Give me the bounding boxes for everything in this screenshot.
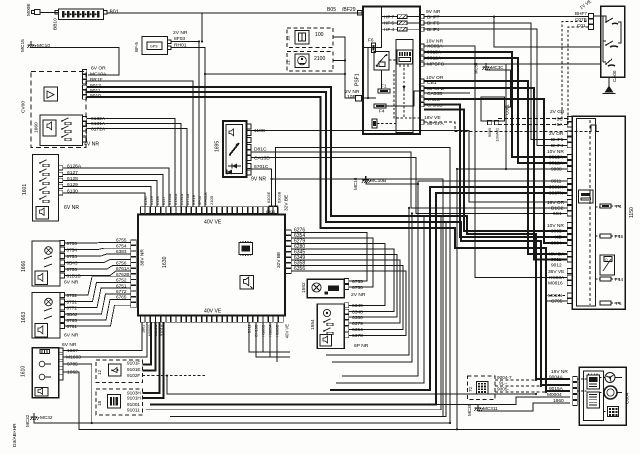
- svg-text:6754: 6754: [116, 243, 127, 248]
- svg-text:BR1E: BR1E: [90, 77, 104, 83]
- door speaker unit 1666: [21, 241, 60, 286]
- wire H16BB stub: [262, 322, 264, 352]
- wire 6772: [64, 288, 130, 307]
- svg-text:9004: 9004: [551, 241, 562, 247]
- svg-text:10V NR: 10V NR: [547, 223, 564, 229]
- wire 6B43: [64, 260, 130, 263]
- svg-text:MC30: MC30: [474, 62, 479, 74]
- svg-text:6761A: 6761A: [116, 266, 130, 271]
- fuse HF4: [382, 27, 421, 32]
- svg-text:40V VE: 40V VE: [285, 324, 290, 338]
- display icon in 1150: [579, 190, 594, 203]
- 1150 pin column: [567, 117, 572, 122]
- svg-text:2V NR: 2V NR: [173, 30, 188, 36]
- frame wire inner d: [336, 216, 424, 383]
- svg-text:6129: 6129: [149, 196, 154, 205]
- wire B011 stub: [249, 322, 290, 352]
- wire branch to C400 upper: [494, 17, 601, 47]
- wire 6753: [64, 254, 130, 256]
- svg-text:6131A: 6131A: [91, 121, 106, 127]
- bold wire 9012A: [424, 58, 567, 163]
- wire +5A: [498, 124, 567, 126]
- 1663 pins: [60, 293, 65, 298]
- svg-text:9005-: 9005-: [497, 387, 509, 392]
- svg-text:1552: 1552: [301, 282, 307, 293]
- wire BHF4 to 1150: [424, 29, 567, 145]
- bold wire 9013: [87, 87, 570, 379]
- dashed box 100: [286, 28, 334, 48]
- svg-text:M00E: M00E: [26, 3, 32, 16]
- C004 pins: [573, 377, 578, 382]
- wire ECU right pin 4: [292, 249, 395, 312]
- C004 chip text block: [587, 392, 600, 408]
- svg-text:+5C: +5C: [554, 117, 563, 123]
- wire MC32 long: [34, 417, 450, 423]
- svg-text:2100: 2100: [314, 56, 325, 62]
- svg-text:18: 18: [97, 400, 102, 406]
- wire RH01: [171, 48, 205, 208]
- terminal M00E: [26, 3, 40, 16]
- wire 8611 with frame vertical: [342, 181, 567, 376]
- PSF1 left pin B05: [358, 11, 363, 16]
- resistor in PSF1 bottom: [372, 119, 396, 128]
- svg-text:8F03: 8F03: [197, 196, 202, 205]
- 1630 left pin column: [131, 240, 136, 245]
- svg-text:10: 10: [286, 35, 291, 41]
- svg-text:9101H: 9101H: [127, 396, 141, 401]
- C400 switch 3: [605, 59, 615, 66]
- svg-text:10B: 10B: [347, 94, 356, 100]
- relay box 1695: [215, 121, 247, 177]
- svg-text:D3/AB×HR: D3/AB×HR: [12, 423, 18, 447]
- svg-text:MC10: MC10: [37, 43, 50, 49]
- svg-text:1695: 1695: [215, 141, 221, 152]
- bold wire 9011: [87, 92, 570, 385]
- svg-text:6765: 6765: [116, 295, 127, 300]
- svg-text:6C1: 6C1: [553, 211, 562, 217]
- svg-text:32V BE: 32V BE: [284, 195, 290, 211]
- svg-text:91011: 91011: [127, 407, 140, 412]
- svg-text:16V OR: 16V OR: [547, 200, 565, 206]
- wire C795 stub: [545, 300, 567, 302]
- svg-text:9101F: 9101F: [127, 361, 140, 366]
- wire 1667: [63, 322, 142, 350]
- wire 6751: [64, 282, 130, 301]
- frame wire inner e: [326, 208, 409, 355]
- component BF-5: [134, 37, 171, 55]
- svg-text:9012A: 9012A: [549, 161, 564, 167]
- svg-text:38V NR: 38V NR: [140, 249, 146, 266]
- svg-text:6772: 6772: [116, 289, 127, 294]
- display unit 1150: [572, 116, 635, 309]
- wire MPSFA dashed: [424, 122, 589, 132]
- svg-text:6750: 6750: [352, 285, 363, 291]
- fuse HF7: [382, 14, 421, 19]
- svg-text:MC15: MC15: [20, 39, 26, 52]
- wire B01 junction drop: [201, 13, 203, 42]
- svg-text:18V NR: 18V NR: [551, 369, 568, 375]
- svg-text:9004A: 9004A: [549, 374, 564, 380]
- bold wire CA93B to XE: [424, 105, 567, 238]
- wire MPSFC to 9008: [424, 64, 567, 169]
- svg-text:9004-7: 9004-7: [497, 375, 512, 380]
- svg-text:BHF4: BHF4: [427, 27, 440, 33]
- dashed wire C07B: [562, 22, 589, 120]
- frame wire inner f: [332, 214, 412, 363]
- svg-text:40V VE: 40V VE: [204, 309, 222, 315]
- wire M06IN stub: [545, 295, 567, 297]
- svg-text:1660: 1660: [553, 398, 564, 404]
- svg-text:6130: 6130: [143, 196, 148, 205]
- svg-text:6V NR: 6V NR: [64, 280, 79, 286]
- svg-text:MPSFC: MPSFC: [427, 62, 445, 68]
- wire BHF7 to C400: [424, 16, 589, 18]
- wire 6127: [63, 175, 163, 208]
- wire 6303 feed b: [170, 179, 443, 417]
- svg-text:9008: 9008: [551, 167, 562, 173]
- svg-text:6127: 6127: [67, 170, 78, 176]
- svg-text:XE: XE: [555, 235, 561, 241]
- svg-text:BB10: BB10: [53, 18, 59, 30]
- svg-text:M1663: M1663: [66, 355, 81, 361]
- wire 6131A: [87, 124, 181, 208]
- 1552 pins: [344, 279, 349, 284]
- svg-text:6756: 6756: [116, 261, 127, 266]
- svg-text:1601: 1601: [22, 184, 28, 195]
- handset unit 1610: [21, 348, 59, 398]
- grid icon in C004: [608, 407, 619, 417]
- 1630 right pin column: [286, 230, 291, 235]
- svg-text:10V NR: 10V NR: [426, 39, 444, 45]
- svg-text:100: 100: [315, 32, 324, 38]
- fuse F1: [378, 84, 390, 94]
- wire ECU right pin 3: [292, 244, 386, 306]
- svg-text:6130: 6130: [67, 189, 78, 195]
- svg-text:XC03A: XC03A: [427, 44, 443, 50]
- svg-text:6378: 6378: [352, 333, 363, 339]
- svg-text:C001: C001: [505, 104, 510, 115]
- antenna CA00: [603, 70, 618, 93]
- wire V0 outer frame: [456, 169, 458, 429]
- bold wire 9103H: [143, 322, 160, 393]
- wire 1662 bottom bus: [63, 372, 560, 429]
- wire ECU right pin 8: [292, 271, 407, 335]
- wire M1663: [63, 322, 147, 357]
- svg-text:6V NR: 6V NR: [64, 333, 79, 339]
- 1554 pins: [344, 303, 349, 308]
- svg-text:D1C2: D1C2: [551, 206, 564, 212]
- PSF1 inner module: [396, 40, 413, 133]
- wire 118C: [251, 131, 567, 203]
- svg-text:MC32: MC32: [25, 414, 30, 427]
- svg-text:36V VE: 36V VE: [548, 269, 564, 275]
- socket 1554: [310, 304, 344, 349]
- wire MC311: [478, 403, 570, 411]
- svg-text:Q: Q: [605, 258, 608, 262]
- svg-text:XC03A: XC03A: [549, 275, 565, 281]
- bold wire 9010: [87, 97, 570, 391]
- svg-text:6755: 6755: [116, 238, 127, 243]
- svg-text:MC35: MC35: [467, 403, 472, 416]
- bold wire 9006X frame: [330, 187, 567, 390]
- wire 6755: [64, 242, 130, 245]
- svg-text:1667: 1667: [67, 348, 78, 354]
- fuse F6 in 1150: [600, 301, 622, 306]
- svg-text:10V NR: 10V NR: [547, 149, 564, 155]
- fuse F6: [368, 38, 376, 53]
- connector 1660: [34, 115, 83, 146]
- svg-text:1663: 1663: [21, 312, 27, 323]
- svg-text:72: 72: [468, 386, 473, 392]
- svg-text:F4: F4: [616, 204, 622, 209]
- wire ECU right pin 6: [292, 260, 401, 323]
- IC chip icon in 1630: [239, 241, 253, 256]
- svg-text:91001: 91001: [127, 402, 140, 407]
- svg-text:BHF4: BHF4: [551, 143, 564, 149]
- svg-text:1660: 1660: [34, 122, 40, 133]
- connector block in PSF1: [397, 50, 413, 67]
- wire 6132A: [87, 119, 175, 208]
- wire 6303 feed a: [276, 148, 451, 424]
- speaker icon CV00: [44, 87, 58, 101]
- 1666 pins: [60, 241, 65, 246]
- svg-text:F15: F15: [615, 234, 623, 239]
- ground MC30: [474, 62, 504, 74]
- svg-text:6128: 6128: [155, 196, 160, 205]
- svg-text:6349: 6349: [352, 303, 363, 309]
- frame wire inner a: [146, 216, 441, 410]
- svg-text:9V NR: 9V NR: [251, 177, 266, 183]
- wire MC10 to CV00 pin: [31, 48, 119, 76]
- svg-text:1610: 1610: [21, 366, 27, 377]
- dashed wire 9L: [495, 385, 541, 387]
- wire corner to C004 region: [167, 376, 536, 394]
- clock icon in C004: [604, 386, 617, 399]
- dashed wire 9004: [495, 379, 536, 381]
- svg-text:MC32: MC32: [40, 415, 53, 420]
- 1630 top right pin 6303: [269, 206, 278, 214]
- 1150 internal dashed: [596, 206, 623, 303]
- wire 2100 join: [333, 60, 345, 62]
- svg-text:GPS: GPS: [150, 45, 158, 49]
- wire +5C: [498, 118, 567, 120]
- svg-text:6752: 6752: [116, 278, 127, 283]
- C400 switch 2: [605, 41, 618, 47]
- C400 internal wires: [594, 16, 622, 62]
- svg-text:9012: 9012: [551, 263, 562, 269]
- bold wire TACC: [424, 99, 567, 243]
- connector BB10 / B01 filter: [53, 9, 119, 30]
- svg-text:6705: 6705: [67, 362, 78, 368]
- svg-text:6303E: 6303E: [266, 191, 271, 203]
- wire RH01 branch to 10B: [205, 73, 345, 75]
- svg-text:9103H: 9103H: [127, 390, 141, 395]
- 1630 bottom pin strip: [141, 316, 145, 322]
- wire V0 top: [457, 168, 506, 170]
- svg-text:MC3C: MC3C: [491, 65, 503, 70]
- bold wire CB1: [424, 81, 567, 254]
- radio unit 1630: [138, 215, 285, 316]
- svg-text:BHF7: BHF7: [427, 14, 440, 20]
- wire CA53B stub: [424, 92, 470, 94]
- svg-text:12: 12: [97, 369, 102, 375]
- dashed box 2100: [286, 52, 334, 72]
- wire 61B1B: [64, 271, 130, 276]
- bold wire 9101H: [143, 322, 164, 398]
- wire branch to C400 lower: [475, 63, 601, 65]
- svg-text:1150: 1150: [629, 207, 635, 218]
- ground wire MC10B horizontal: [366, 176, 418, 184]
- wire BHF5 to 1150: [424, 23, 567, 140]
- 1630 top pin strip: [141, 207, 145, 214]
- IC icon in C004: [587, 373, 600, 389]
- wire 6130: [63, 193, 145, 207]
- wire 9005 bold: [424, 110, 567, 232]
- svg-text:6348: 6348: [352, 309, 363, 315]
- svg-text:6V NR: 6V NR: [64, 205, 79, 211]
- svg-text:/BF29: /BF29: [342, 7, 356, 13]
- dashed wire 9102F: [143, 375, 206, 377]
- svg-text:PSF1: PSF1: [355, 73, 361, 86]
- svg-text:210B: 210B: [209, 196, 214, 205]
- C400 pins: [589, 13, 594, 18]
- svg-text:BR1E: BR1E: [191, 194, 196, 205]
- svg-text:6380: 6380: [352, 315, 363, 321]
- relay box C001: [481, 97, 510, 121]
- wire XC03A long: [424, 46, 567, 278]
- wire MC3C to C001: [486, 67, 511, 107]
- svg-text:F14: F14: [615, 277, 623, 282]
- svg-text:6762B: 6762B: [116, 272, 130, 277]
- svg-text:2V OR: 2V OR: [549, 131, 564, 137]
- svg-text:2V GR: 2V GR: [550, 109, 565, 115]
- svg-text:6379: 6379: [352, 321, 363, 327]
- ground MC32: [25, 413, 53, 427]
- svg-text:BHF5: BHF5: [427, 21, 440, 27]
- wire 6765: [64, 300, 130, 321]
- fan icon in C004: [605, 373, 615, 383]
- wire ECU right pin 7: [292, 266, 404, 330]
- wire M00E to BB10: [40, 11, 58, 13]
- svg-text:4V NR: 4V NR: [84, 142, 99, 148]
- svg-text:CA13D: CA13D: [254, 156, 270, 162]
- svg-text:BHF5: BHF5: [551, 137, 564, 143]
- fuse F14 in 1150: [600, 277, 623, 282]
- wire 6126A: [63, 168, 169, 207]
- ground MC15: [20, 39, 50, 52]
- control unit C004: [579, 367, 631, 425]
- svg-text:M0616: M0616: [548, 281, 563, 287]
- connector 1601: [22, 155, 59, 222]
- svg-text:6V NR: 6V NR: [62, 342, 77, 348]
- svg-text:2V NR: 2V NR: [351, 292, 366, 298]
- wire 6754: [64, 248, 130, 249]
- svg-text:9015A: 9015A: [549, 386, 564, 392]
- C004 internal dashes: [578, 378, 623, 412]
- svg-text:9L--: 9L--: [499, 381, 508, 386]
- wire CH13B stub: [256, 322, 290, 357]
- dashed box 72: [468, 376, 496, 400]
- svg-text:CV00: CV00: [21, 101, 27, 113]
- fuse F15 in 1150: [600, 234, 623, 239]
- dashed box 18: [96, 389, 143, 415]
- 1660 pins: [83, 116, 87, 120]
- svg-text:1666: 1666: [21, 261, 27, 272]
- svg-text:6303: 6303: [266, 209, 276, 214]
- fuse box PSF1: [355, 7, 421, 135]
- svg-text:M0004: M0004: [547, 392, 562, 398]
- fuse HF5: [382, 21, 421, 26]
- wire H16BC stub: [276, 322, 278, 362]
- wire 6B62: [64, 294, 130, 314]
- svg-text:9102F: 9102F: [127, 373, 140, 378]
- svg-text:1662: 1662: [67, 370, 78, 376]
- svg-text:B05: B05: [327, 7, 336, 13]
- svg-text:C004: C004: [625, 392, 631, 404]
- ground MC311: [467, 403, 498, 416]
- svg-text:6V OR: 6V OR: [91, 66, 106, 72]
- wire ECU right pin 1: [292, 233, 368, 282]
- svg-text:RH01B: RH01B: [203, 192, 208, 205]
- frame wire inner b: [170, 222, 446, 417]
- svg-text:6383: 6383: [116, 249, 127, 254]
- 1695 right pins: [246, 124, 251, 129]
- svg-text:6129: 6129: [67, 182, 78, 188]
- svg-text:MC311: MC311: [483, 406, 498, 411]
- relay in 1150: [600, 255, 615, 275]
- svg-text:BHF7: BHF7: [575, 11, 587, 16]
- svg-text:9V NR: 9V NR: [426, 9, 441, 15]
- svg-text:6P NR: 6P NR: [354, 343, 369, 349]
- svg-text:1554: 1554: [310, 319, 316, 330]
- wire 6705: [63, 364, 92, 423]
- bold wire 9007N frame: [150, 193, 567, 405]
- svg-text:6131A: 6131A: [179, 193, 184, 205]
- dashed box CV00: [31, 72, 86, 148]
- svg-text:6128: 6128: [67, 176, 78, 182]
- svg-text:CA53B: CA53B: [427, 91, 443, 97]
- svg-text:40V BA: 40V BA: [548, 252, 565, 258]
- C001 pins: [488, 120, 492, 124]
- svg-text:6127: 6127: [161, 196, 166, 205]
- dashed box 12: [96, 360, 143, 383]
- svg-text:32V BE: 32V BE: [276, 252, 282, 268]
- wire 6172A: [87, 129, 187, 208]
- svg-text:1661: 1661: [141, 325, 146, 334]
- svg-text:C795: C795: [551, 299, 563, 305]
- wire 6128: [63, 181, 157, 208]
- svg-text:CA00: CA00: [612, 70, 617, 82]
- svg-text:6126A: 6126A: [67, 164, 82, 170]
- 1601 pins: [59, 166, 63, 170]
- PSF1 internal dashed wires: [363, 48, 420, 119]
- thermal contact icon: [589, 125, 599, 132]
- svg-text:6755: 6755: [352, 279, 363, 285]
- dashed wire 9005: [495, 391, 546, 393]
- svg-text:6751: 6751: [116, 283, 127, 288]
- svg-text:F1: F1: [381, 84, 387, 89]
- svg-text:1630: 1630: [162, 256, 168, 268]
- svg-text:900B: 900B: [487, 128, 492, 137]
- wire 8F03: [171, 42, 199, 208]
- wire D81C: [251, 152, 567, 208]
- svg-text:10VA01: 10VA01: [495, 128, 500, 142]
- bold wire 9013A: [424, 52, 567, 157]
- svg-text:6303B: 6303B: [277, 191, 282, 203]
- svg-text:6354: 6354: [352, 327, 363, 333]
- PSF1 left pin 10B: [356, 96, 362, 102]
- svg-text:21: 21: [286, 59, 291, 65]
